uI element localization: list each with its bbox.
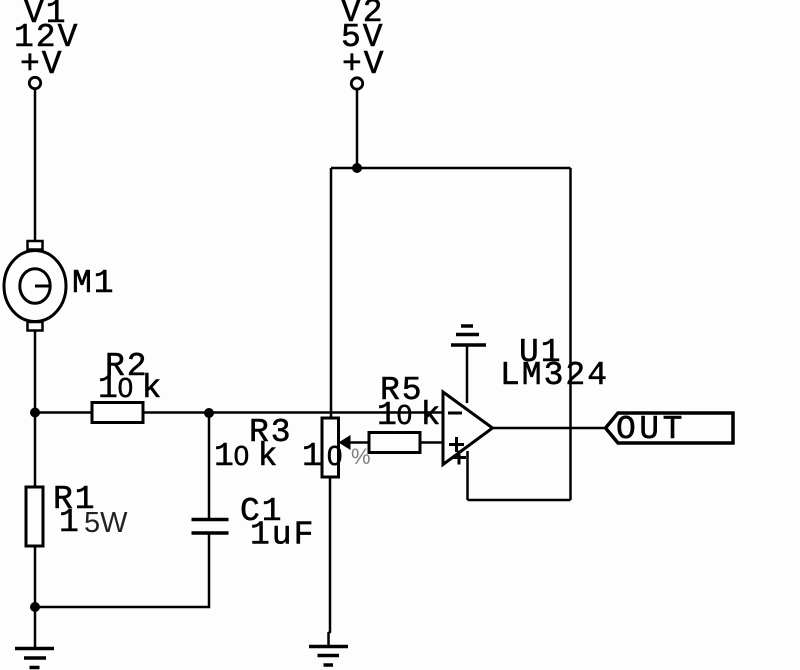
svg-text:1: 1 [59, 504, 81, 541]
svg-text:M1: M1 [72, 265, 116, 302]
svg-text:10k: 10k [377, 397, 442, 434]
wire wiper to R5 [350, 441, 369, 444]
resistor R1 [26, 487, 43, 546]
wire R5 to op-amp non-inverting input [420, 441, 443, 444]
wire V1 to motor M1 [34, 90, 37, 242]
svg-text:+V: +V [342, 46, 386, 83]
wire node A to R2 [35, 411, 92, 414]
wire supply bottom horizontal [468, 499, 571, 502]
ground GND3 inverted above op-amp [451, 326, 486, 345]
op-amp U1 [443, 392, 493, 465]
wire R3 bottom to ground [329, 477, 331, 646]
svg-text:1uF: 1uF [250, 517, 315, 554]
potentiometer R3 body [322, 418, 339, 477]
svg-text:5W: 5W [84, 507, 128, 539]
wire R2 to node B [143, 411, 209, 414]
wire rail down to potentiometer R3 [330, 168, 333, 418]
connector OUT tag [606, 413, 734, 443]
op-amp U1 non-inverting input plus sign [449, 437, 464, 452]
junction node C [30, 602, 40, 612]
wire op-amp supply pin down [466, 451, 469, 500]
op-amp U1 inverting input minus sign [448, 412, 462, 415]
resistor R2 [92, 403, 143, 423]
svg-text:10: 10 [302, 438, 342, 475]
ground GND2 [309, 647, 348, 666]
junction node A [30, 408, 40, 418]
svg-text:LM324: LM324 [500, 357, 609, 394]
op-amp U1 positive supply plus sign [452, 451, 466, 465]
wire op-amp ground pin [466, 345, 469, 403]
svg-text:+V: +V [20, 46, 64, 83]
svg-text:10k: 10k [214, 438, 279, 475]
wire node B to capacitor C1 [208, 413, 211, 519]
wire supply rail horizontal [331, 167, 571, 170]
motor M1 [4, 241, 66, 331]
svg-text:OUT: OUT [616, 411, 686, 448]
capacitor C1 [192, 520, 229, 534]
junction node D on rail [352, 163, 362, 173]
potentiometer R3 wiper arrow [339, 435, 351, 450]
wire node C to C1 bottom [35, 535, 209, 608]
resistor R5 [369, 433, 420, 453]
ground GND1 [15, 607, 54, 668]
wire R1 to node C [34, 546, 37, 607]
svg-text:10k: 10k [98, 370, 163, 407]
wire node A to R1 [34, 413, 37, 488]
wire V2 to rail [356, 90, 359, 168]
wire M1 to node A [34, 331, 37, 413]
junction node B [204, 408, 214, 418]
wire supply right vertical [569, 168, 572, 500]
wire op-amp output to OUT [493, 427, 607, 430]
wire node B to op-amp inverting input [209, 411, 443, 414]
